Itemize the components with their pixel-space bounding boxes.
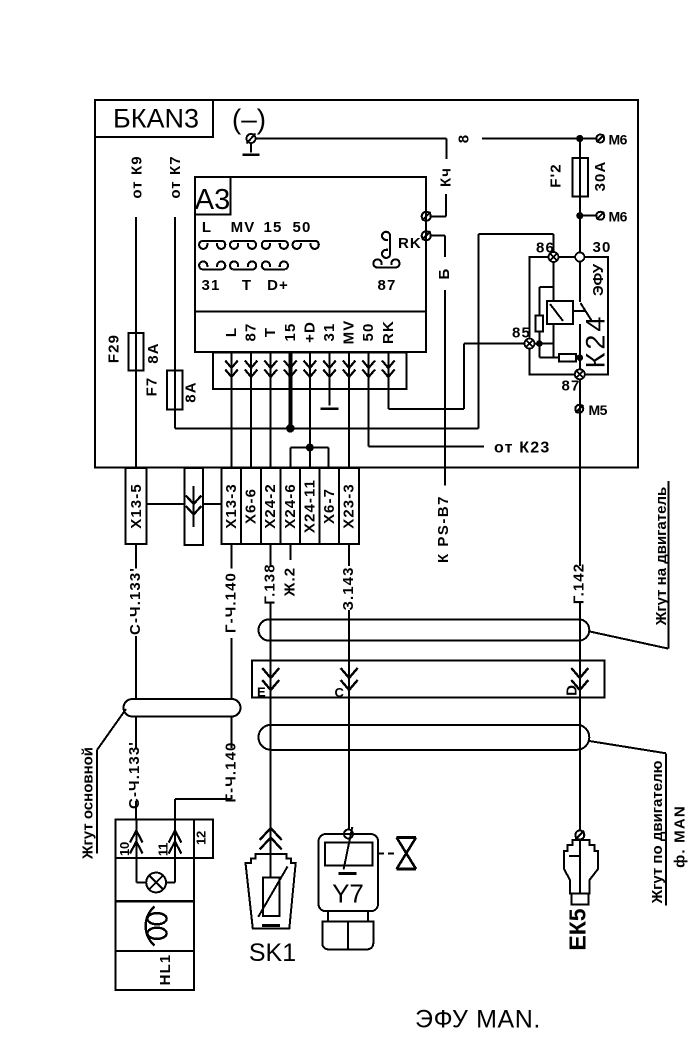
svg-text:Г-Ч.140: Г-Ч.140: [223, 742, 240, 803]
svg-text:SK1: SK1: [249, 939, 296, 967]
svg-text:ЭФУ: ЭФУ: [590, 263, 607, 296]
svg-text:Х24-11: Х24-11: [301, 479, 318, 533]
svg-text:15: 15: [282, 323, 299, 342]
svg-text:Жгут по двигателю: Жгут по двигателю: [649, 760, 666, 904]
svg-text:Х23-3: Х23-3: [341, 483, 358, 529]
svg-text:С-Ч.133': С-Ч.133': [127, 567, 144, 635]
svg-text:М6: М6: [609, 209, 628, 225]
svg-text:85: 85: [512, 325, 531, 342]
svg-text:Т: Т: [242, 277, 252, 294]
svg-text:Х6-6: Х6-6: [243, 488, 260, 524]
svg-text:86: 86: [536, 240, 555, 257]
svg-text:8: 8: [456, 134, 473, 143]
svg-text:8А: 8А: [183, 381, 200, 402]
svg-text:З.143: З.143: [340, 566, 357, 610]
svg-text:F7: F7: [144, 377, 161, 397]
svg-text:Ж.2: Ж.2: [282, 567, 299, 597]
svg-text:от К7: от К7: [167, 155, 184, 198]
svg-text:от К23: от К23: [494, 440, 550, 457]
svg-text:L: L: [223, 327, 240, 337]
svg-text:Т: Т: [262, 327, 279, 337]
svg-text:К PS-В7: К PS-В7: [435, 495, 452, 563]
svg-text:К24: К24: [581, 314, 611, 369]
svg-text:15: 15: [264, 219, 283, 236]
svg-text:БКАN3: БКАN3: [113, 104, 199, 134]
svg-text:от К9: от К9: [129, 155, 146, 198]
svg-text:С: С: [335, 685, 345, 700]
svg-text:Б: Б: [436, 268, 453, 280]
svg-text:D+: D+: [267, 277, 289, 294]
svg-text:Х6-7: Х6-7: [321, 488, 338, 524]
svg-text:31: 31: [202, 277, 221, 294]
svg-text:М6: М6: [609, 132, 628, 148]
svg-text:30: 30: [593, 239, 612, 256]
svg-text:87: 87: [562, 378, 581, 395]
svg-text:F'2: F'2: [548, 163, 565, 187]
svg-text:31: 31: [321, 323, 338, 342]
svg-text:30А: 30А: [592, 161, 609, 192]
svg-text:Жгут на двигатель: Жгут на двигатель: [653, 487, 670, 626]
svg-text:MV: MV: [231, 219, 256, 236]
svg-text:ЕК5: ЕК5: [565, 908, 591, 950]
svg-text:Г.138: Г.138: [262, 563, 279, 604]
svg-text:Х24-6: Х24-6: [282, 483, 299, 529]
svg-text:Y7: Y7: [332, 879, 364, 909]
svg-text:Г-Ч.140: Г-Ч.140: [223, 572, 240, 633]
svg-text:12: 12: [194, 831, 209, 845]
svg-text:11: 11: [156, 843, 171, 856]
svg-text:Х13-5: Х13-5: [128, 483, 145, 529]
svg-text:Г.142: Г.142: [571, 563, 588, 604]
svg-text:М5: М5: [589, 402, 608, 418]
svg-text:А3: А3: [195, 184, 230, 216]
svg-text:Кч: Кч: [438, 167, 455, 187]
svg-text:+D: +D: [301, 321, 318, 343]
svg-text:ф. MAN: ф. MAN: [672, 805, 689, 868]
svg-text:RK: RK: [380, 320, 397, 344]
svg-text:F29: F29: [106, 334, 123, 363]
svg-text:MV: MV: [341, 320, 358, 345]
svg-text:(–): (–): [232, 104, 266, 135]
svg-text:HL1: HL1: [157, 954, 174, 986]
svg-text:8А: 8А: [145, 342, 162, 363]
svg-text:87: 87: [243, 323, 260, 342]
svg-text:ЭФУ MAN.: ЭФУ MAN.: [415, 1006, 541, 1034]
svg-text:50: 50: [293, 219, 312, 236]
svg-text:Жгут основной: Жгут основной: [80, 747, 97, 860]
svg-text:50: 50: [360, 323, 377, 342]
svg-text:Е: Е: [257, 685, 266, 700]
svg-text:87: 87: [378, 277, 397, 294]
svg-text:Х24-2: Х24-2: [262, 483, 279, 529]
svg-text:D: D: [564, 685, 581, 696]
svg-text:10: 10: [117, 842, 132, 856]
svg-text:RK: RK: [398, 235, 422, 252]
svg-text:L: L: [202, 219, 212, 236]
svg-text:С-Ч.133': С-Ч.133': [126, 741, 143, 809]
svg-text:Х13-3: Х13-3: [223, 483, 240, 529]
